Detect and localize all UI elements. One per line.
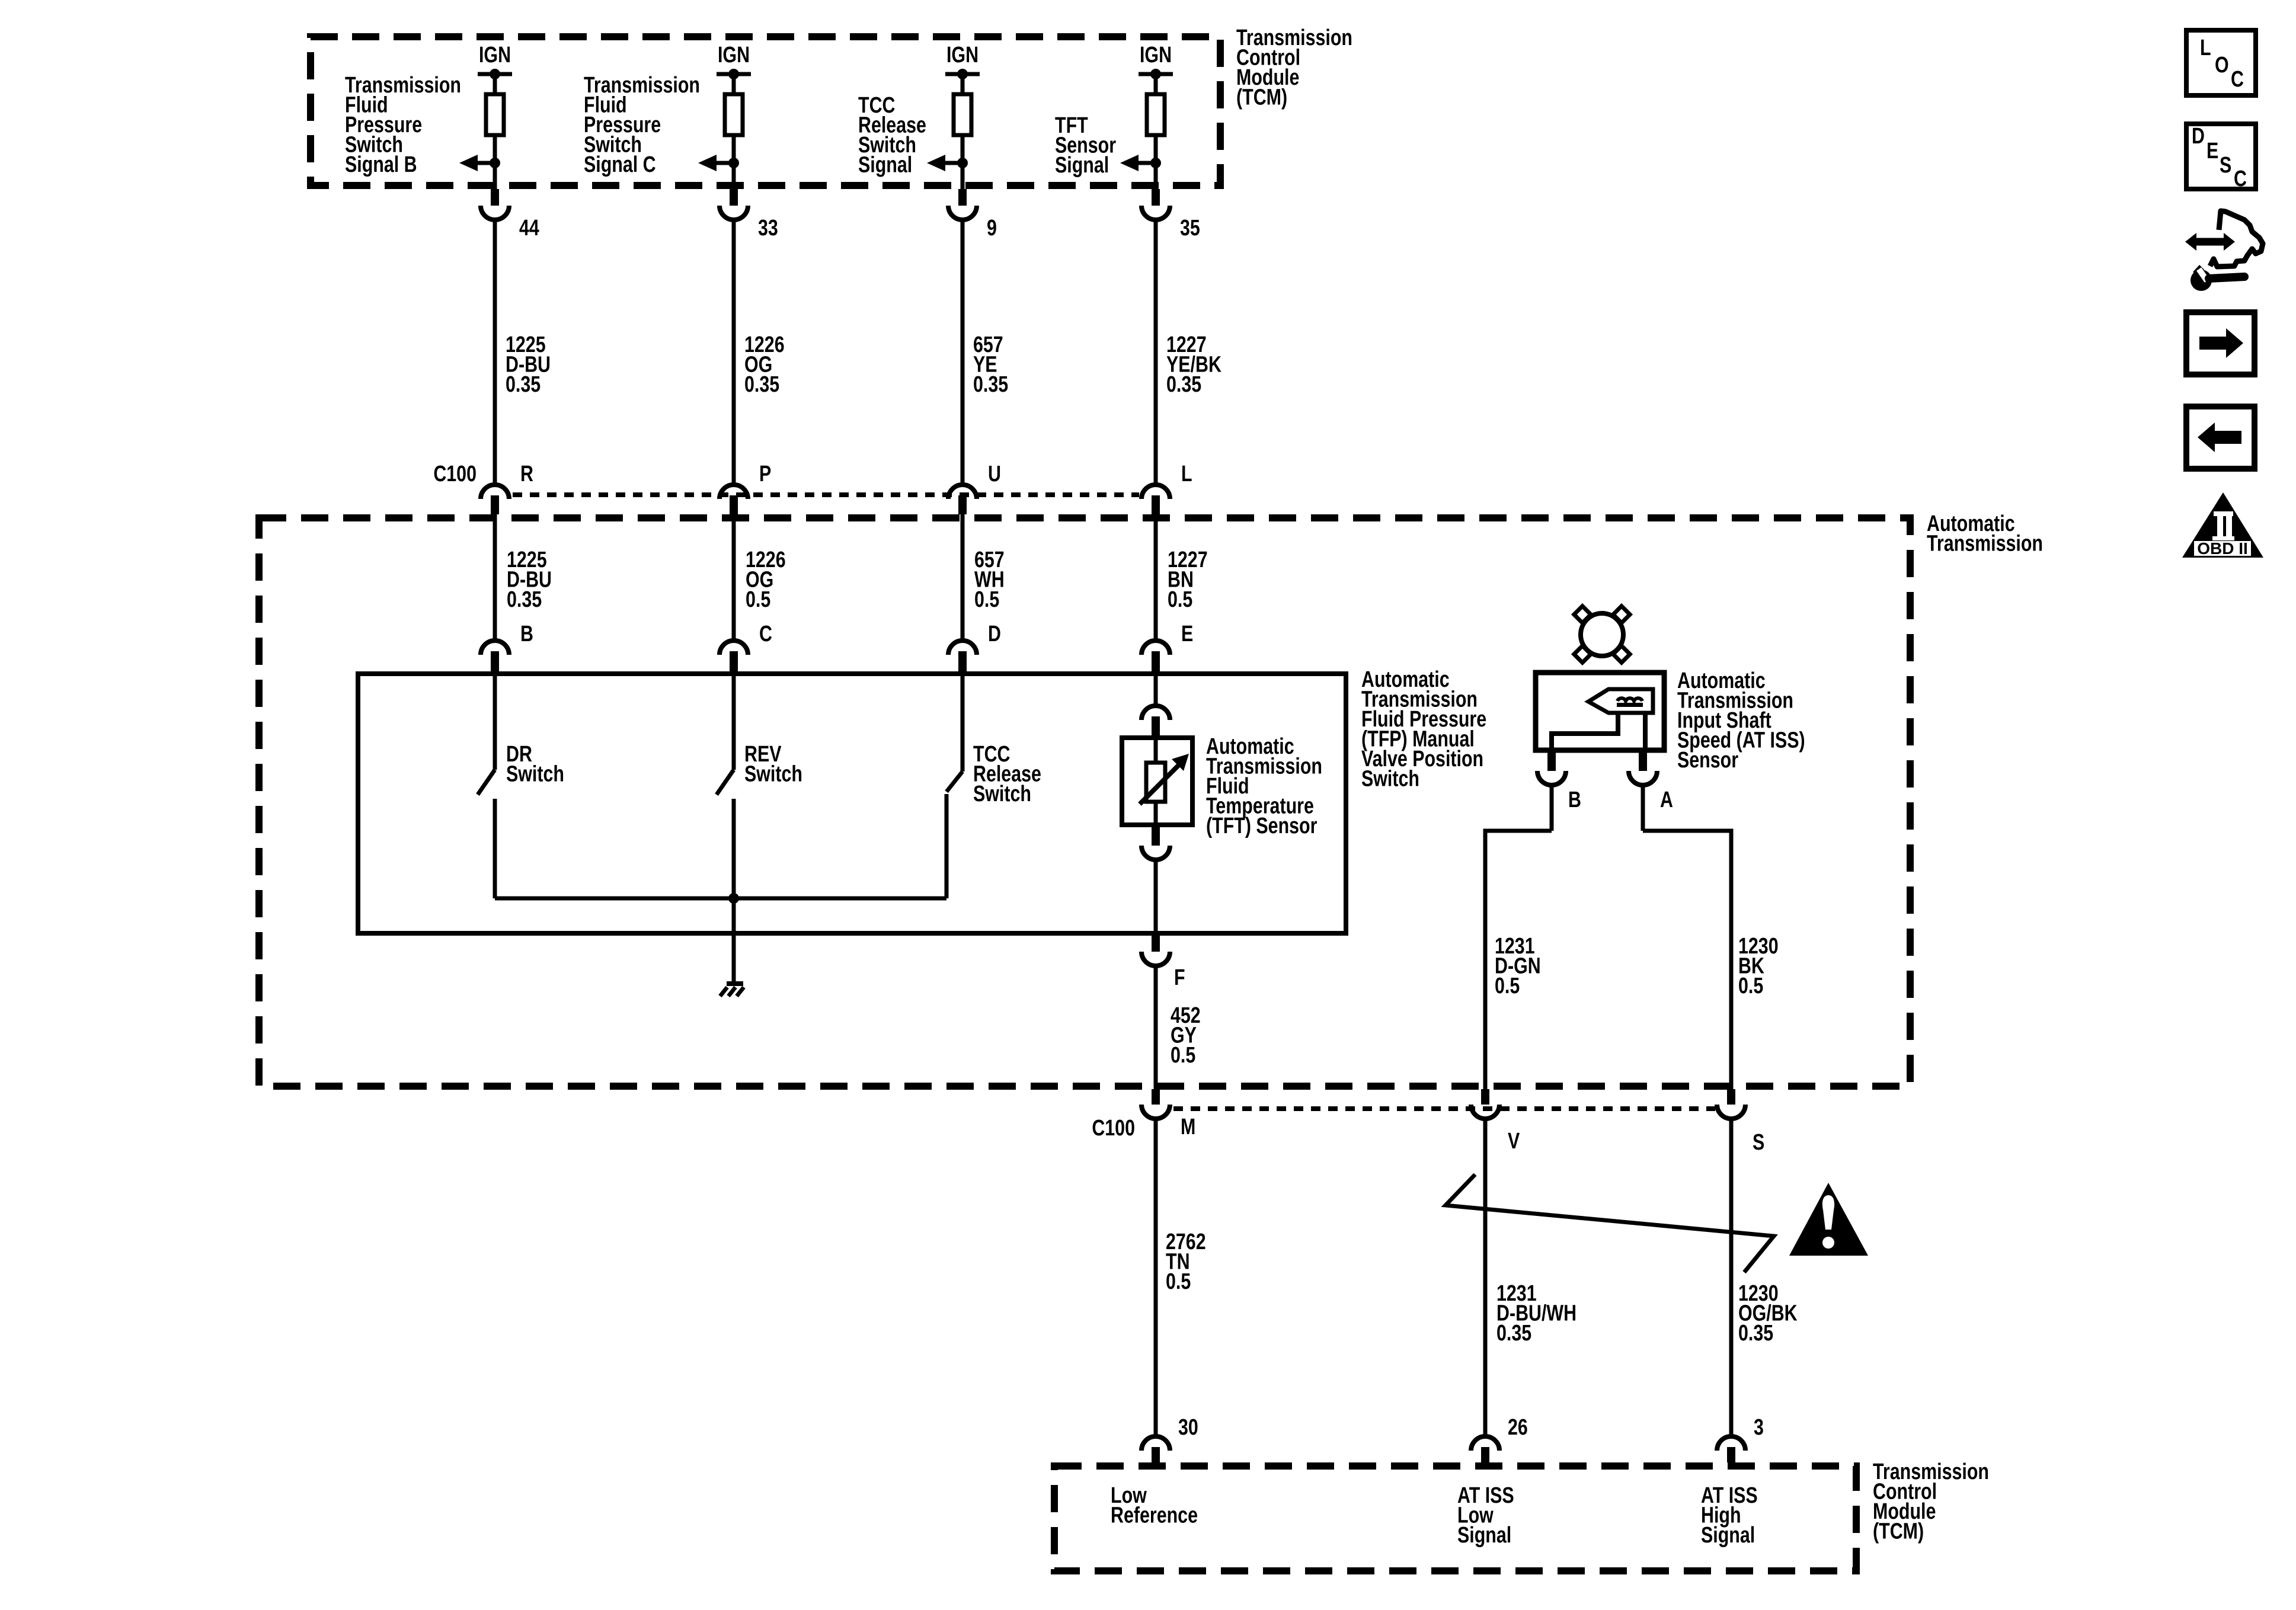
junction dot col 2 (728, 158, 739, 168)
resistor (TCM pull-up) col 2 (725, 94, 743, 135)
svg-text:B: B (1568, 788, 1581, 812)
wire to ground (732, 898, 736, 985)
wire 1225 D-BU col 1 (493, 514, 497, 639)
svg-text:Switch: Switch (744, 761, 802, 786)
svg-text:V: V (1508, 1129, 1520, 1154)
icon LOC box (2186, 30, 2256, 95)
svg-text:Signal C: Signal C (584, 152, 656, 177)
svg-text:0.35: 0.35 (1166, 372, 1201, 397)
svg-text:L: L (1181, 462, 1192, 486)
wire 2762 TN 0.5 (1154, 1119, 1158, 1435)
svg-text:C100: C100 (1092, 1116, 1135, 1141)
svg-text:0.5: 0.5 (1168, 587, 1192, 612)
svg-text:U: U (988, 462, 1001, 486)
svg-text:O: O (2215, 53, 2229, 78)
wire C100 harness dotted line (top) (513, 492, 1139, 497)
connector TCM pin 3 (1717, 1436, 1745, 1451)
wire resistor to junction col 4 (1154, 135, 1158, 165)
svg-text:E: E (1181, 622, 1193, 646)
svg-text:Signal: Signal (858, 152, 912, 177)
wire junction to TCM pin col 2 (732, 163, 736, 190)
connector TFP switch pin E (1141, 641, 1170, 655)
svg-text:(TCM): (TCM) (1873, 1519, 1924, 1544)
svg-text:OBD II: OBD II (2197, 539, 2248, 558)
svg-text:0.5: 0.5 (1166, 1269, 1191, 1294)
svg-text:D: D (2192, 124, 2205, 149)
svg-text:0.35: 0.35 (973, 372, 1008, 397)
switch REV (732, 676, 736, 770)
junction dot col 3 (957, 158, 968, 168)
junction dot col 4 (1150, 158, 1161, 168)
svg-text:Sensor: Sensor (1677, 748, 1738, 773)
wire 1231 D-BU/WH (1483, 1119, 1488, 1435)
svg-text:S: S (2220, 153, 2231, 178)
switch TCC release (961, 676, 965, 772)
wire IGN to resistor col 4 (1154, 74, 1158, 96)
wire 1226 OG col 2 (732, 220, 736, 483)
thermistor (TFT) (1146, 763, 1165, 802)
connector TFT sensor top (1141, 706, 1170, 720)
svg-text:E: E (2207, 139, 2218, 164)
wire ISS internal A (1643, 713, 1648, 750)
svg-text:44: 44 (519, 216, 539, 241)
svg-text:Signal B: Signal B (345, 152, 417, 177)
svg-text:C: C (759, 622, 772, 646)
svg-text:D: D (988, 622, 1001, 646)
icon DESC box (2186, 124, 2256, 189)
Automatic Transmission box (259, 518, 1910, 1086)
wire 1225 D-BU col 1 (493, 220, 497, 483)
svg-text:A: A (1660, 788, 1673, 812)
svg-text:0.5: 0.5 (1495, 974, 1520, 998)
wire ISS B to V (1550, 786, 1554, 831)
wire 1226 OG col 2 (732, 514, 736, 639)
svg-text:C: C (2234, 167, 2247, 191)
signal arrow col 2 (716, 161, 734, 165)
wire 452 GY 0.5 (1154, 966, 1158, 1089)
svg-text:M: M (1181, 1115, 1195, 1140)
connector TFP switch pin D (948, 641, 977, 655)
TCM box (bottom) (1054, 1466, 1856, 1571)
svg-text:IGN: IGN (1140, 43, 1172, 68)
svg-text:33: 33 (758, 216, 778, 241)
svg-text:3: 3 (1754, 1415, 1764, 1440)
connector TFT sensor bottom (1152, 825, 1160, 846)
TFP manual valve position switch box (358, 674, 1346, 933)
wire ISS A to S (1641, 786, 1645, 831)
svg-text:0.5: 0.5 (746, 587, 770, 612)
svg-text:P: P (759, 462, 771, 486)
svg-text:26: 26 (1508, 1415, 1528, 1440)
svg-text:C100: C100 (433, 462, 477, 486)
svg-text:F: F (1174, 965, 1185, 990)
connector C100 pin R (481, 485, 509, 499)
svg-text:(TFT) Sensor: (TFT) Sensor (1206, 814, 1317, 838)
ground (727, 981, 743, 986)
switch DR (493, 676, 497, 770)
svg-text:Signal: Signal (1457, 1523, 1511, 1548)
svg-text:0.5: 0.5 (1738, 974, 1763, 998)
wire inside TFT sensor (1154, 738, 1158, 764)
resistor (TCM pull-up) col 1 (486, 94, 504, 135)
connector TFP switch pin B (481, 641, 509, 655)
connector TCM pin 35 (1152, 189, 1160, 206)
svg-text:L: L (2200, 36, 2211, 60)
svg-text:9: 9 (987, 216, 997, 241)
svg-text:IGN: IGN (718, 43, 750, 68)
wire 657 WH col 3 (961, 514, 965, 639)
connector C100 pin S (1727, 1089, 1735, 1105)
connector TCM pin 26 (1471, 1436, 1499, 1451)
connector C100 pin P (720, 485, 748, 499)
wire junction to TCM pin col 4 (1154, 163, 1158, 190)
connector TFP pin F (1152, 935, 1160, 952)
icon arrow left box (2186, 406, 2255, 469)
wire E to TFT sensor (1154, 676, 1158, 704)
svg-text:0.5: 0.5 (1171, 1043, 1195, 1068)
icon wrench/diagnostic (2195, 238, 2227, 246)
svg-text:S: S (1753, 1130, 1764, 1155)
wire 1227 BN col 4 (1154, 514, 1158, 639)
wire IGN to resistor col 1 (493, 74, 497, 96)
thermistor arrow (1140, 764, 1179, 804)
wire TFT to F (1154, 860, 1158, 936)
svg-text:Reference: Reference (1111, 1503, 1198, 1528)
wire IGN to resistor col 2 (732, 74, 736, 96)
svg-text:IGN: IGN (946, 43, 978, 68)
wire 1230 OG/BK (1729, 1119, 1734, 1435)
svg-text:R: R (520, 462, 533, 486)
svg-text:Transmission: Transmission (1927, 531, 2043, 556)
resistor (TCM pull-up) col 4 (1147, 94, 1165, 135)
connector C100 pin U (948, 485, 977, 499)
wire resistor to junction col 2 (732, 135, 736, 165)
wire resistor to junction col 3 (961, 135, 965, 165)
twisted pair symbol (1446, 1174, 1774, 1272)
svg-text:0.35: 0.35 (1738, 1321, 1773, 1346)
svg-text:35: 35 (1180, 216, 1200, 241)
connector TCM pin 9 (958, 189, 967, 206)
svg-text:Switch: Switch (973, 782, 1031, 806)
warning triangle (1789, 1183, 1868, 1256)
junction bus to ground (728, 893, 739, 904)
wire switch common bus (495, 897, 946, 901)
svg-text:(TCM): (TCM) (1236, 85, 1287, 110)
connector TCM pin 44 (491, 189, 499, 206)
wire ISS internal B (1552, 713, 1618, 750)
svg-text:C: C (2231, 67, 2244, 92)
junction dot col 1 (490, 158, 500, 168)
connector C100 pin M (1152, 1089, 1160, 1105)
svg-text:Switch: Switch (1361, 766, 1419, 791)
wire junction to TCM pin col 1 (493, 163, 497, 190)
wire 1227 YE/BK col 4 (1154, 220, 1158, 483)
connector TCM pin 33 (730, 189, 738, 206)
connector ISS pin B (1547, 750, 1556, 771)
AT ISS sensor gear symbol (1581, 613, 1623, 656)
icon OBD II triangle (2182, 492, 2263, 558)
svg-text:0.5: 0.5 (974, 587, 999, 612)
wire 657 YE col 3 (961, 220, 965, 483)
TCM box (top) (311, 37, 1220, 185)
AT ISS sensor box (1536, 673, 1664, 750)
svg-text:B: B (520, 622, 533, 646)
resistor (TCM pull-up) col 3 (954, 94, 971, 135)
connector ISS pin A (1639, 750, 1647, 771)
svg-text:30: 30 (1178, 1415, 1198, 1440)
signal arrow col 1 (477, 161, 495, 165)
svg-text:0.35: 0.35 (744, 372, 779, 397)
signal arrow col 3 (945, 161, 962, 165)
connector C100 pin L (1141, 485, 1170, 499)
connector C100 pin V (1481, 1089, 1489, 1105)
wire resistor to junction col 1 (493, 135, 497, 165)
wire C100 harness dotted line (bottom) (1173, 1106, 1715, 1111)
connector TCM pin 30 (1141, 1436, 1170, 1451)
svg-text:Signal: Signal (1055, 153, 1109, 178)
svg-text:Signal: Signal (1701, 1523, 1755, 1548)
svg-text:Switch: Switch (506, 761, 564, 786)
svg-text:0.35: 0.35 (507, 587, 542, 612)
icon arrow right box (2186, 312, 2255, 375)
signal arrow col 4 (1138, 161, 1156, 165)
svg-text:IGN: IGN (479, 43, 511, 68)
svg-text:0.35: 0.35 (506, 372, 541, 397)
wire junction to TCM pin col 3 (961, 163, 965, 190)
connector TFP switch pin C (720, 641, 748, 655)
AT ISS pickup symbol (1588, 689, 1653, 713)
svg-text:0.35: 0.35 (1496, 1321, 1531, 1346)
wire IGN to resistor col 3 (961, 74, 965, 96)
TFT sensor box (1122, 738, 1192, 825)
